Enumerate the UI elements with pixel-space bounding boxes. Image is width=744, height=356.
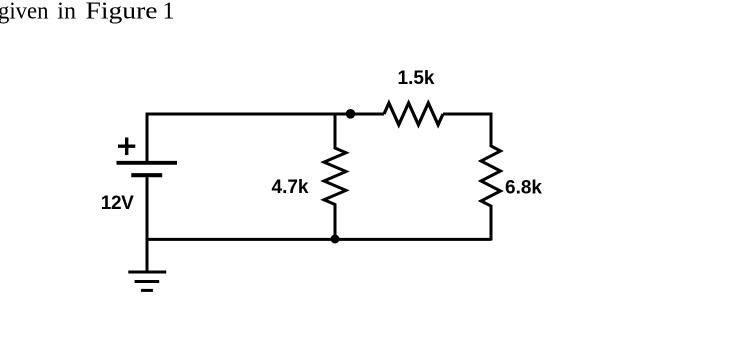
svg-text:6.8k: 6.8k — [505, 177, 542, 198]
svg-text:given: given — [0, 0, 49, 25]
svg-text:in: in — [57, 0, 76, 25]
svg-text:1.5k: 1.5k — [398, 68, 435, 89]
svg-text:1: 1 — [163, 0, 175, 25]
svg-text:12V: 12V — [101, 193, 134, 214]
svg-text:4.7k: 4.7k — [272, 177, 309, 198]
svg-text:Figure: Figure — [86, 0, 158, 25]
